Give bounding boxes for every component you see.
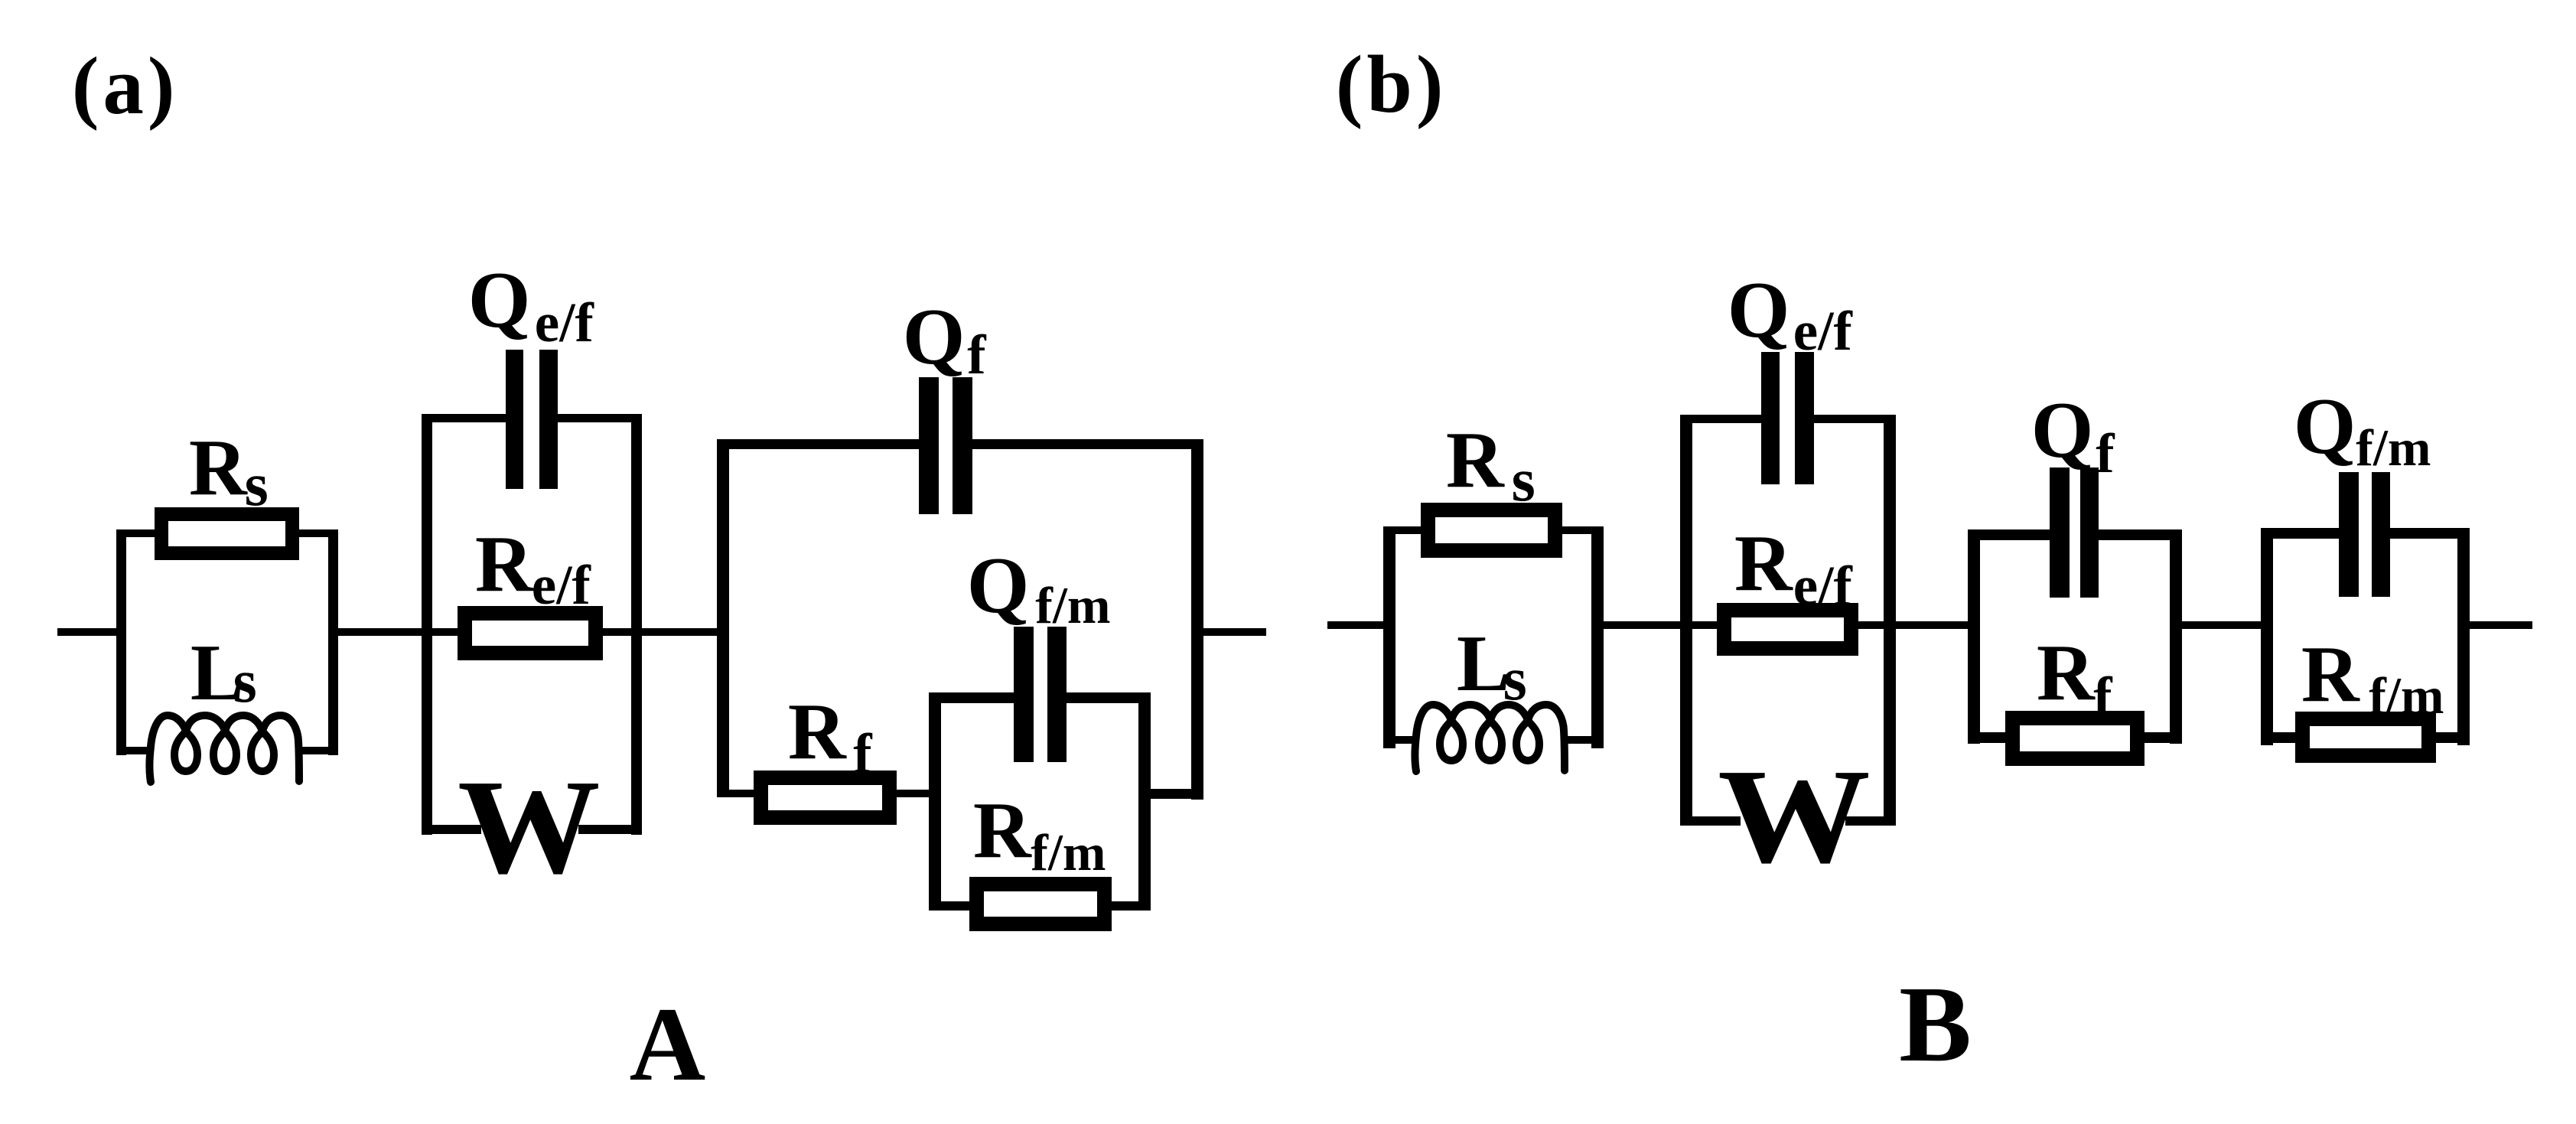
wire Qfm box top left (b) [2261, 528, 2339, 539]
capacitor Qf right plate (panel a) [953, 377, 972, 514]
capacitor Qe/f right plate (panel a) [539, 350, 558, 489]
wire Qef box top left [422, 414, 506, 422]
label Ls (panel b) [1457, 623, 1510, 703]
wire Qef box bottom right [578, 825, 642, 834]
label Re/f (panel b) [1734, 523, 1793, 603]
label (a) [72, 46, 179, 128]
label Rf (panel a) [788, 691, 846, 771]
capacitor Qf/m left plate (panel a) [1014, 627, 1034, 762]
wire Rs/Ls box bottom left (b) [1383, 736, 1418, 744]
label B [1899, 969, 1972, 1078]
wire stub from Rs right (b) [1558, 526, 1604, 534]
wire B block1 to block2 [1604, 621, 1692, 629]
wire output B [2470, 621, 2532, 629]
capacitor Qf left plate (panel a) [919, 377, 939, 514]
wire Qef box right vertical (b) [1884, 415, 1896, 826]
wire Qef box bottom right (b) [1845, 816, 1896, 826]
wire Qef box right vertical [631, 414, 642, 835]
wire input B [1327, 621, 1385, 629]
wire Qf box top left (b) [1968, 529, 2050, 540]
capacitor Qf right plate (panel b) [2080, 468, 2099, 598]
wire into Re/f (b) [1692, 621, 1723, 629]
wire Qfm box right vertical (b) [2457, 528, 2470, 745]
wire big box left vertical [717, 439, 729, 797]
wire Qef box top right [558, 414, 642, 422]
wire Qef box top right (b) [1814, 415, 1896, 423]
label Rf/m (panel b) [2301, 634, 2359, 714]
wire Re/f to block3 (b) [1855, 621, 1974, 629]
wire Rs/Ls box right vertical [328, 529, 338, 755]
label Qf (panel b) [2031, 389, 2094, 470]
wire B block3 to block4 [2182, 621, 2261, 629]
resistor Rf (panel b) [2005, 711, 2144, 766]
wire Qfm box bottom left (b) [2261, 732, 2297, 743]
label Qf/m (panel b) [2294, 386, 2356, 466]
wire inner box bottom left [929, 901, 971, 911]
wire Qfm box bottom right (b) [2434, 732, 2470, 743]
wire inner box top left [929, 692, 1014, 703]
wire Rs/Ls box right vertical (b) [1591, 526, 1604, 748]
wire Rs/Ls box left vertical [116, 529, 126, 755]
wire Qef box left vertical (b) [1680, 415, 1692, 826]
capacitor Qe/f right plate (panel b) [1795, 352, 1814, 484]
label Rf (panel b) [2037, 632, 2095, 712]
label Rs (panel b) [1446, 419, 1504, 500]
resistor Rs (panel a) [155, 507, 299, 560]
wire Rs/Ls box bottom left [116, 747, 153, 754]
label Qf (panel a) [903, 296, 966, 376]
wire Qf box bottom left (b) [1968, 732, 2007, 743]
label Rs (panel a) [189, 427, 247, 507]
wire Qf box right vertical (b) [2170, 529, 2182, 744]
wire input A [57, 628, 121, 636]
label Qe/f (panel a) [468, 259, 531, 340]
wire big box top left [717, 439, 920, 449]
wire output A [1203, 628, 1266, 636]
wire big box right vertical [1191, 439, 1203, 800]
wire Qef box left vertical [422, 414, 432, 835]
capacitor Qf/m left plate (panel b) [2339, 472, 2359, 597]
label Ls (panel a) [191, 632, 244, 712]
wire Rs/Ls box left vertical (b) [1383, 526, 1395, 748]
capacitor Qf left plate (panel b) [2050, 468, 2070, 598]
wire Qfm box left vertical (b) [2261, 528, 2273, 745]
wire inner box bottom right [1110, 901, 1151, 911]
wire Rs/Ls box bottom right [298, 747, 338, 754]
resistor Rs (panel b) [1421, 503, 1562, 558]
resistor Re/f (panel b) [1717, 603, 1858, 656]
wire Qef box bottom left (b) [1680, 816, 1741, 826]
label (b) [1336, 44, 1448, 126]
label Qf/m (panel a) [967, 545, 1030, 625]
wire inner box right vertical [1138, 692, 1151, 911]
wire Qef box top left (b) [1680, 415, 1761, 423]
Warburg element W (panel a) [458, 760, 601, 895]
wire Qf box left vertical (b) [1968, 529, 1980, 744]
resistor Rf (panel a) [754, 771, 897, 825]
wire into Re/f [432, 628, 463, 636]
wire Re/f to block3 [600, 628, 717, 636]
wire Qf box top right (b) [2099, 529, 2182, 540]
capacitor Qe/f left plate (panel a) [506, 350, 523, 489]
wire inner box top right [1067, 692, 1151, 703]
wire Qef box bottom left [422, 825, 481, 834]
wire stub to Rs left [116, 529, 158, 537]
resistor Rf/m (panel b) [2295, 712, 2436, 763]
wire lower branch stub [729, 790, 755, 797]
wire big box top right [972, 439, 1203, 449]
Warburg element W (panel b) [1718, 749, 1871, 885]
wire Rs/Ls box bottom right (b) [1563, 736, 1604, 744]
wire Qf box bottom right (b) [2143, 732, 2182, 743]
label Qe/f (panel b) [1728, 269, 1790, 350]
label A [630, 992, 706, 1097]
label Rf/m (panel a) [973, 790, 1031, 870]
wire stub to Rs left (b) [1383, 526, 1425, 534]
label Re/f (panel a) [475, 523, 533, 604]
wire A block1 to block2 [338, 628, 432, 636]
wire Rf to inner box [895, 790, 935, 797]
wire inner box left vertical [929, 692, 941, 911]
capacitor Qf/m right plate (panel a) [1047, 627, 1067, 762]
wire Qfm box top right (b) [2390, 528, 2470, 539]
resistor Rf/m (panel a) [969, 877, 1112, 931]
resistor Re/f (panel a) [458, 606, 603, 660]
capacitor Qf/m right plate (panel b) [2372, 472, 2390, 597]
capacitor Qe/f left plate (panel b) [1761, 352, 1780, 484]
wire inner box to big box right [1151, 789, 1191, 799]
wire stub from Rs right [295, 529, 338, 537]
